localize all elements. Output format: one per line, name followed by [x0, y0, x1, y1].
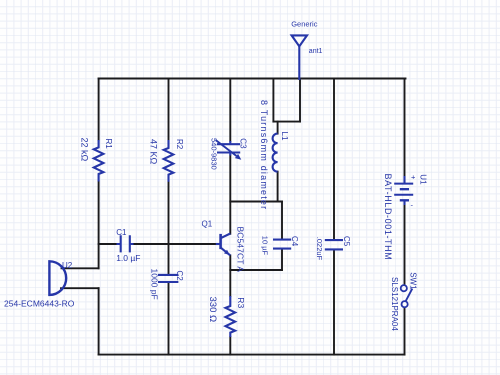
svg-text:R3: R3	[236, 297, 246, 308]
svg-text:8 Turns6mm diameter: 8 Turns6mm diameter	[259, 100, 269, 210]
svg-text:Generic: Generic	[291, 20, 318, 29]
svg-text:R2: R2	[175, 139, 184, 150]
svg-text:BC547CT A: BC547CT A	[235, 227, 245, 273]
svg-text:330 Ω: 330 Ω	[207, 297, 218, 323]
svg-text:1000 pF: 1000 pF	[150, 269, 160, 300]
svg-text:.022uF: .022uF	[315, 237, 324, 261]
svg-text:C2: C2	[175, 271, 184, 282]
svg-text:C4: C4	[290, 236, 299, 247]
svg-text:SLS121PRA04: SLS121PRA04	[390, 277, 399, 331]
svg-text:L1: L1	[280, 132, 289, 141]
svg-text:1.0 µF: 1.0 µF	[116, 253, 140, 263]
svg-text:Q1: Q1	[202, 219, 213, 228]
svg-text:C5: C5	[342, 236, 351, 247]
svg-text:ant1: ant1	[309, 48, 323, 55]
svg-text:C3: C3	[239, 138, 248, 149]
svg-text:BAT-HLD-001-THM: BAT-HLD-001-THM	[383, 174, 393, 261]
svg-text:+: +	[411, 173, 416, 182]
svg-text:22 kΩ: 22 kΩ	[80, 138, 90, 162]
svg-text:540-9830: 540-9830	[209, 138, 218, 170]
svg-text:47 KΩ: 47 KΩ	[149, 139, 159, 165]
svg-text:U1: U1	[418, 174, 427, 185]
svg-text:C1: C1	[116, 228, 127, 237]
svg-text:R1: R1	[104, 139, 113, 150]
svg-text:254-ECM6443-RO: 254-ECM6443-RO	[4, 298, 75, 308]
svg-text:U2: U2	[62, 261, 73, 270]
svg-text:SW1: SW1	[409, 272, 418, 290]
svg-text:10 µF: 10 µF	[261, 236, 270, 256]
